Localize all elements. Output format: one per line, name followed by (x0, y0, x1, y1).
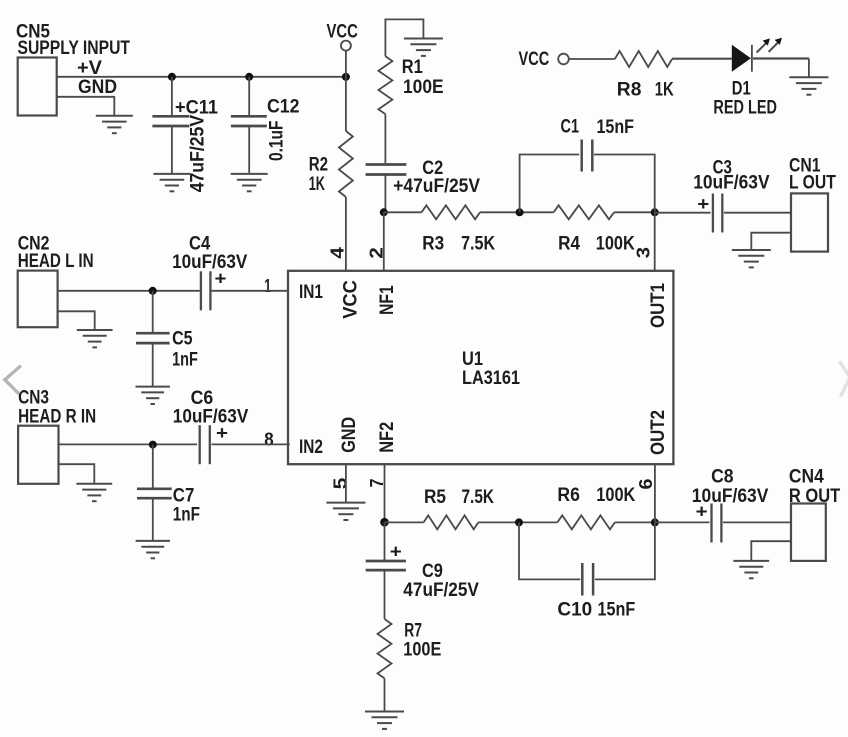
svg-text:R5: R5 (424, 487, 446, 508)
label GND (CN5) (78, 77, 117, 98)
svg-text:100K: 100K (596, 234, 635, 255)
capacitor C10 (519, 522, 655, 620)
ground R1 (404, 39, 443, 56)
capacitor C3 (655, 157, 791, 232)
capacitor C12 (231, 77, 300, 174)
resistor R2 (309, 77, 353, 271)
svg-text:C10: C10 (557, 600, 592, 621)
svg-text:IN2: IN2 (299, 437, 323, 458)
svg-text:6: 6 (636, 479, 656, 490)
pin number 4 (328, 247, 348, 259)
wire CN5 GND stub (57, 97, 115, 116)
capacitor C4 (172, 233, 288, 310)
svg-text:HEAD L IN: HEAD L IN (18, 251, 94, 272)
connector CN4 (789, 467, 841, 561)
wire CN4 ground stub (751, 541, 791, 561)
pin label IN1 (299, 282, 323, 303)
svg-text:+: + (696, 502, 708, 522)
LED D1 (713, 38, 809, 119)
resistor R4 (554, 205, 635, 254)
pin label GND (pin 5) (339, 417, 360, 453)
svg-text:OUT1: OUT1 (648, 283, 669, 328)
wire R4-OUT1 (614, 211, 655, 213)
resistor R3 (422, 205, 496, 254)
svg-text:U1: U1 (462, 349, 483, 370)
svg-text:R7: R7 (404, 620, 422, 641)
svg-text:GND: GND (78, 77, 117, 98)
junction node IN2 (149, 441, 157, 449)
resistor R6 (557, 485, 635, 529)
svg-text:C1: C1 (561, 117, 580, 138)
carousel arrow right (840, 362, 848, 397)
connector CN5 (16, 22, 130, 116)
wire D1 to ground (808, 59, 810, 78)
pin number 7 (367, 479, 387, 488)
connector CN3 (18, 388, 96, 484)
ground CN3 (76, 484, 112, 501)
resistor R1 (378, 19, 443, 163)
svg-text:GND: GND (339, 417, 360, 453)
svg-text:CN4: CN4 (789, 467, 824, 488)
pin label VCC (pin 4) (341, 280, 362, 319)
svg-text:1nF: 1nF (173, 505, 200, 526)
svg-text:L OUT: L OUT (789, 173, 836, 194)
pin number 2 (367, 247, 387, 259)
svg-text:100E: 100E (403, 640, 441, 661)
op-amp U1 LA3161 body (288, 271, 673, 464)
junction node NF2 (380, 518, 389, 527)
junction node OUT2 (651, 518, 659, 526)
svg-text:C7: C7 (173, 486, 195, 507)
svg-text:+: + (215, 269, 227, 289)
junction node R5/R6 (515, 518, 523, 526)
svg-text:C5: C5 (172, 329, 193, 350)
wire NF1 row left (384, 211, 422, 213)
svg-text:IN1: IN1 (299, 282, 323, 303)
wire GND pin 5 (345, 464, 347, 502)
svg-text:100K: 100K (596, 485, 635, 506)
junction node R3/R4 (516, 208, 524, 216)
ground C7 (136, 541, 170, 558)
capacitor C8 (655, 467, 791, 543)
svg-text:+47uF/25V: +47uF/25V (393, 176, 480, 197)
svg-text:VCC: VCC (341, 280, 362, 319)
svg-text:0.1uF: 0.1uF (267, 121, 288, 161)
wire CN3 GND stub (59, 464, 95, 484)
ground CN2 (77, 330, 113, 347)
wire OUT2 to pin 6 (654, 464, 656, 522)
svg-text:+: + (390, 542, 402, 562)
capacitor C1 (520, 117, 655, 213)
svg-text:7.5K: 7.5K (462, 487, 495, 508)
capacitor C2 (366, 158, 481, 212)
svg-text:10uF/63V: 10uF/63V (172, 252, 247, 273)
svg-text:R3: R3 (422, 234, 444, 255)
svg-text:2: 2 (367, 247, 387, 259)
pin number 1 (264, 276, 271, 296)
ground CN5 (96, 116, 133, 133)
svg-text:OUT2: OUT2 (648, 410, 669, 455)
svg-text:R6: R6 (557, 485, 580, 506)
wire +V rail (57, 76, 346, 78)
ground pin 5 (326, 503, 365, 520)
wire OUT1 to pin 3 (654, 212, 656, 270)
capacitor C7 (137, 445, 200, 541)
svg-text:VCC: VCC (519, 49, 550, 70)
svg-text:15nF: 15nF (597, 117, 635, 138)
wire NF1 to pin 2 (383, 212, 385, 270)
wire R8 to D1 (672, 58, 732, 60)
svg-text:10uF/63V: 10uF/63V (173, 406, 249, 427)
svg-text:+: + (216, 423, 228, 443)
svg-text:15nF: 15nF (598, 600, 636, 621)
svg-text:1: 1 (264, 276, 271, 296)
ground C5 (136, 387, 170, 404)
svg-text:47uF/25V: 47uF/25V (403, 580, 479, 601)
svg-text:NF2: NF2 (377, 422, 398, 453)
svg-text:7.5K: 7.5K (461, 234, 495, 255)
svg-text:VCC: VCC (327, 22, 359, 43)
junction node at C12 (245, 73, 253, 81)
capacitor C5 (136, 291, 198, 387)
wire CN2 signal (58, 290, 200, 292)
capacitor C6 (173, 388, 290, 464)
pin number 3 (634, 247, 654, 258)
capacitor C9 (366, 522, 479, 619)
svg-text:+: + (697, 194, 709, 214)
svg-text:100E: 100E (403, 77, 444, 98)
ground D1 (789, 77, 828, 94)
label +V (77, 58, 102, 79)
svg-text:HEAD R IN: HEAD R IN (18, 406, 96, 427)
svg-text:1K: 1K (655, 80, 674, 101)
pin number 8 (264, 429, 273, 449)
power VCC (main) (327, 22, 359, 77)
junction node IN1 (149, 287, 157, 295)
svg-text:SUPPLY INPUT: SUPPLY INPUT (18, 38, 131, 59)
wire R5-R6 (478, 521, 557, 523)
svg-text:R2: R2 (309, 154, 328, 175)
svg-text:D1: D1 (732, 79, 751, 100)
connector CN1 (789, 155, 836, 251)
wire CN3 signal (59, 443, 198, 445)
svg-text:R8: R8 (617, 80, 642, 101)
ground CN4 (733, 561, 769, 578)
power VCC (LED branch) (519, 49, 615, 70)
pin label OUT1 (pin 3) (648, 283, 669, 328)
junction node at VCC tap (342, 73, 350, 81)
svg-text:C9: C9 (422, 561, 443, 582)
svg-text:3: 3 (634, 247, 654, 258)
pin number 5 (331, 478, 351, 490)
node NF1 junction (380, 208, 388, 216)
svg-text:C12: C12 (267, 97, 300, 118)
svg-text:R1: R1 (402, 57, 423, 78)
svg-text:LA3161: LA3161 (462, 368, 520, 389)
capacitor C11 (152, 77, 218, 193)
svg-text:5: 5 (331, 478, 351, 490)
resistor R5 (424, 487, 495, 530)
svg-text:R OUT: R OUT (789, 486, 841, 507)
pin label IN2 (299, 437, 323, 458)
wire CN1 ground stub (751, 233, 791, 250)
wire NF2 pin 7 (384, 464, 386, 522)
pin label NF1 (pin 2) (377, 285, 398, 315)
svg-text:1K: 1K (309, 174, 325, 195)
carousel arrow left (5, 366, 21, 394)
ground C11 (153, 174, 190, 191)
connector CN2 (18, 233, 94, 327)
resistor R8 (615, 51, 674, 101)
junction node OUT1 (651, 208, 659, 216)
svg-text:R4: R4 (558, 234, 580, 255)
svg-text:RED LED: RED LED (713, 98, 777, 119)
wire NF2 row left (385, 521, 424, 523)
svg-text:1nF: 1nF (172, 350, 198, 371)
svg-text:C8: C8 (711, 467, 734, 488)
wire R6-OUT2 (615, 521, 655, 523)
svg-text:4: 4 (328, 247, 348, 259)
ground R7 (365, 712, 404, 729)
svg-text:10uF/63V: 10uF/63V (693, 173, 770, 194)
ground CN1 (732, 250, 771, 267)
pin number 6 (636, 479, 656, 490)
wire R3-R4 (480, 211, 554, 213)
wire CN2 GND stub (58, 311, 95, 330)
pin label OUT2 (pin 6) (648, 410, 669, 455)
resistor R7 (378, 619, 442, 712)
svg-text:NF1: NF1 (377, 285, 398, 315)
ground C12 (231, 174, 268, 191)
junction node at C11 (168, 73, 176, 81)
svg-text:8: 8 (264, 429, 273, 449)
svg-text:47uF/25V: 47uF/25V (188, 115, 209, 193)
pin label NF2 (pin 7) (377, 422, 398, 453)
